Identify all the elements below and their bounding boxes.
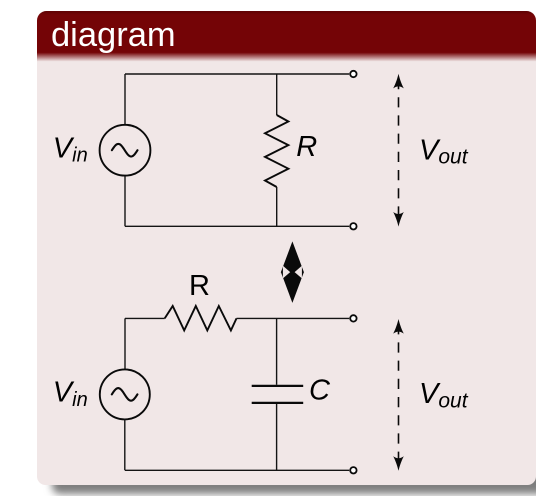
wire: bottom horizontal	[125, 225, 349, 227]
svg-text:R: R	[296, 131, 317, 163]
voltage source V2 (AC)	[100, 369, 150, 419]
wire: left branch lower (bottom circuit)	[124, 419, 126, 470]
svg-text:R: R	[189, 270, 210, 302]
block header	[37, 11, 536, 72]
resistor R1 (vertical zigzag)	[265, 115, 288, 187]
terminal: bottom circuit top-right	[350, 315, 356, 321]
wire: left branch upper	[124, 74, 126, 125]
equivalence arrow (bold double-headed)	[281, 241, 304, 303]
wire: resistor branch lower stub	[276, 187, 278, 226]
wire: capacitor to bottom wire	[276, 404, 278, 470]
svg-text:Vin: Vin	[53, 132, 88, 166]
wire: top horizontal	[125, 73, 349, 75]
terminal: bottom circuit bottom-right	[350, 467, 356, 473]
capacitor C1	[252, 386, 304, 403]
svg-text:C: C	[309, 375, 331, 407]
wire: left branch lower	[124, 176, 126, 227]
wire: top-left segment	[125, 317, 165, 319]
Vout measurement arrow (top, dashed double arrow)	[393, 74, 404, 227]
svg-text:Vin: Vin	[53, 377, 88, 411]
wire: left branch upper (bottom circuit)	[124, 318, 126, 369]
terminal: mid-right open circle	[350, 223, 356, 229]
terminal: top-right open circle	[350, 71, 356, 77]
svg-text:Vout: Vout	[419, 134, 469, 168]
voltage source V1 (AC)	[100, 125, 151, 176]
Vout measurement arrow (bottom, dashed double arrow)	[393, 319, 404, 471]
resistor R2 (horizontal zigzag)	[165, 306, 237, 330]
wire: resistor branch upper stub	[276, 74, 278, 115]
drop shadow of block	[52, 471, 536, 494]
wire: bottom horizontal (bottom circuit)	[125, 469, 349, 471]
svg-text:Vout: Vout	[419, 378, 469, 412]
wire: resistor to terminal	[237, 317, 350, 319]
wire: junction down to capacitor	[276, 318, 278, 384]
